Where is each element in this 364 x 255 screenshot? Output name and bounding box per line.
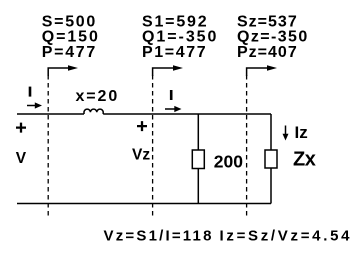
current arrow I after inductor — [165, 106, 182, 112]
wire: resistor top lead — [197, 114, 199, 150]
label + (Vz polarity) — [137, 121, 147, 131]
svg-text:V: V — [16, 150, 27, 167]
power flow arrow at section 3 — [247, 65, 277, 76]
label I (current after inductor) — [170, 90, 173, 100]
svg-text:Iz: Iz — [295, 123, 308, 142]
wire: Zx top lead — [270, 114, 272, 150]
wire: bottom return — [17, 203, 271, 205]
wire: Zx bottom lead — [270, 168, 272, 204]
node section-3 dashed cut line — [246, 75, 248, 216]
current arrow I at input — [27, 102, 42, 108]
svg-text:Pz=407: Pz=407 — [237, 44, 298, 61]
svg-text:Iz=Sz/Vz=4.54: Iz=Sz/Vz=4.54 — [220, 228, 353, 245]
node section-1 dashed cut line — [47, 75, 49, 216]
svg-text:Vz=S1/I=118: Vz=S1/I=118 — [104, 228, 214, 245]
inductor x=20 — [84, 109, 103, 114]
wire: top right segment — [103, 113, 271, 115]
svg-text:P1=477: P1=477 — [142, 44, 207, 61]
node section-2 dashed cut line — [152, 75, 154, 216]
label I (input current) — [29, 87, 32, 97]
label + (source polarity) — [16, 123, 26, 133]
impedance Zx (box) — [265, 150, 277, 168]
resistor 200 (box) — [192, 150, 204, 169]
power flow arrow at section 1 — [48, 65, 78, 76]
svg-text:Vz: Vz — [132, 146, 150, 163]
wire: top left segment — [17, 113, 84, 115]
wire: resistor bottom lead — [197, 169, 199, 204]
svg-text:x=20: x=20 — [76, 88, 120, 105]
svg-text:Zx: Zx — [293, 148, 316, 170]
svg-text:P=477: P=477 — [42, 44, 97, 61]
current arrow Iz — [283, 126, 289, 141]
svg-text:200: 200 — [214, 152, 243, 172]
power flow arrow at section 2 — [153, 65, 183, 76]
